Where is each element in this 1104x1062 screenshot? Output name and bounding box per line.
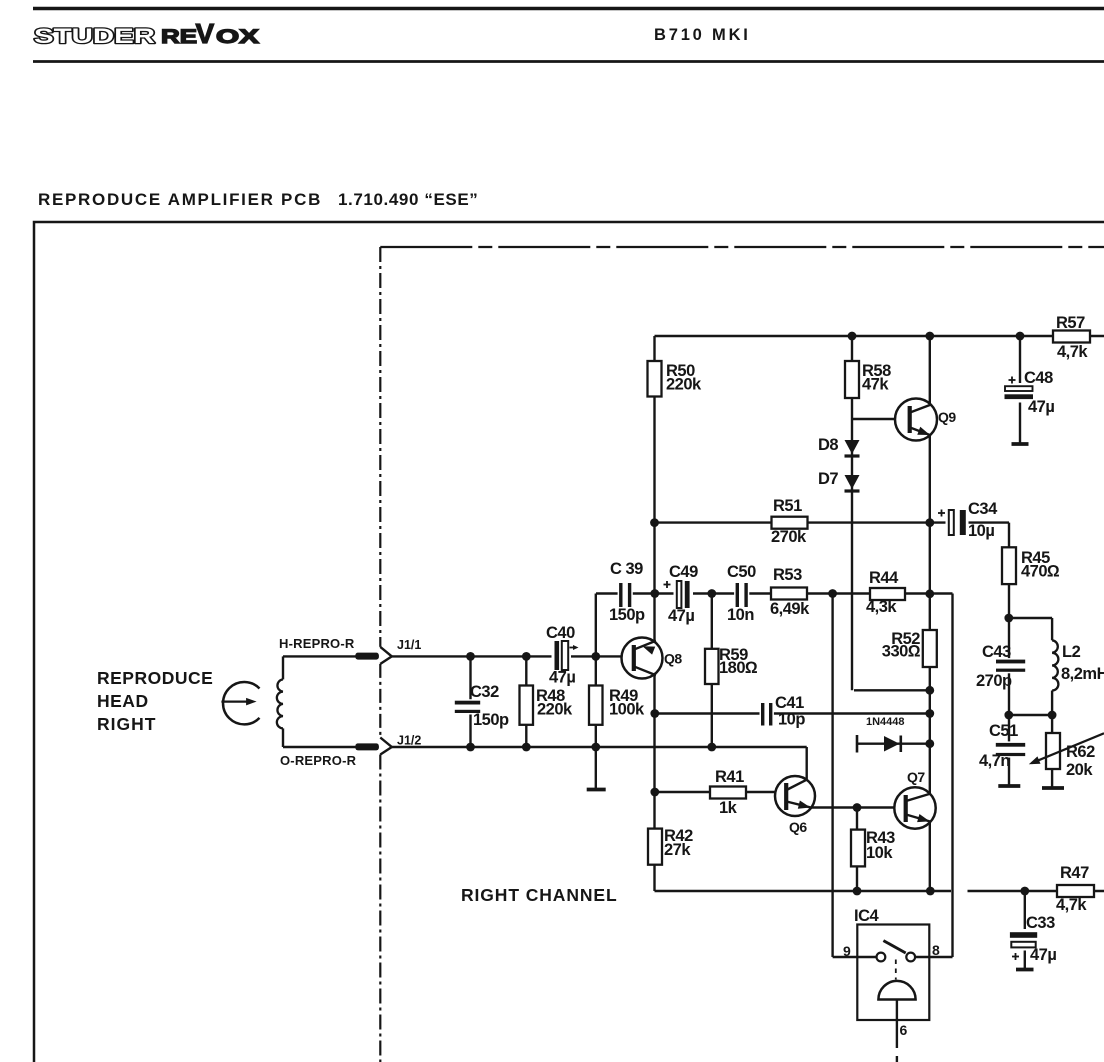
svg-text:8,2mH: 8,2mH [1061,665,1104,683]
svg-text:47k: 47k [862,376,889,394]
svg-text:4,7k: 4,7k [1056,896,1087,914]
svg-text:10k: 10k [866,844,893,862]
svg-text:D7: D7 [818,470,838,488]
svg-text:9: 9 [843,943,851,959]
svg-text:RIGHT CHANNEL: RIGHT CHANNEL [461,885,618,905]
svg-text:RIGHT: RIGHT [97,714,156,734]
svg-text:RE: RE [161,26,197,48]
svg-text:220k: 220k [537,701,573,719]
svg-text:47µ: 47µ [668,607,694,625]
svg-text:C33: C33 [1026,914,1055,932]
svg-text:REPRODUCE: REPRODUCE [97,668,213,688]
svg-text:27k: 27k [664,841,691,859]
svg-text:R53: R53 [773,566,802,584]
svg-text:Q9: Q9 [938,409,956,425]
svg-text:R51: R51 [773,497,802,515]
svg-text:150p: 150p [609,606,645,624]
svg-text:C43: C43 [982,643,1011,661]
svg-text:100k: 100k [609,701,645,719]
svg-text:Q8: Q8 [664,651,682,667]
svg-text:150p: 150p [473,711,509,729]
svg-text:C40: C40 [546,624,575,642]
svg-text:C48: C48 [1024,369,1053,387]
svg-text:20k: 20k [1066,761,1093,779]
svg-text:330Ω: 330Ω [882,643,921,661]
svg-text:220k: 220k [666,376,702,394]
svg-text:270k: 270k [771,528,807,546]
svg-text:OX: OX [216,26,259,48]
svg-text:1N4448: 1N4448 [866,716,905,728]
svg-text:B710 MKI: B710 MKI [654,26,751,44]
svg-text:J1/1: J1/1 [397,638,421,652]
svg-text:C49: C49 [669,563,698,581]
svg-text:HEAD: HEAD [97,691,149,711]
svg-text:REPRODUCE AMPLIFIER PCB: REPRODUCE AMPLIFIER PCB [38,190,322,209]
svg-text:STUDER: STUDER [34,24,156,48]
svg-text:180Ω: 180Ω [719,659,758,677]
svg-text:C50: C50 [727,563,756,581]
svg-text:270p: 270p [976,672,1012,690]
svg-text:8: 8 [932,942,940,958]
svg-text:470Ω: 470Ω [1021,563,1060,581]
svg-text:C51: C51 [989,722,1018,740]
svg-text:10µ: 10µ [968,522,994,540]
svg-text:4,3k: 4,3k [866,598,897,616]
svg-text:Q6: Q6 [789,819,807,835]
svg-text:IC4: IC4 [854,907,880,925]
svg-text:10n: 10n [727,606,754,624]
svg-text:C32: C32 [470,683,499,701]
svg-text:R62: R62 [1066,743,1095,761]
svg-text:C34: C34 [968,500,998,518]
svg-text:C 39: C 39 [610,560,643,578]
svg-text:D8: D8 [818,436,838,454]
svg-text:47µ: 47µ [1030,946,1056,964]
svg-text:6: 6 [900,1022,908,1038]
svg-text:H-REPRO-R: H-REPRO-R [279,636,355,651]
svg-text:10p: 10p [778,711,805,729]
svg-text:Q7: Q7 [907,769,925,785]
svg-text:V: V [196,18,215,49]
svg-text:4,7n: 4,7n [979,752,1010,770]
svg-text:L2: L2 [1062,643,1081,661]
svg-text:R47: R47 [1060,864,1089,882]
svg-text:J1/2: J1/2 [397,734,421,748]
svg-text:R41: R41 [715,768,744,786]
svg-text:R44: R44 [869,569,899,587]
svg-text:O-REPRO-R: O-REPRO-R [280,753,357,768]
svg-text:47µ: 47µ [549,669,575,687]
svg-text:1k: 1k [719,799,738,817]
svg-text:R57: R57 [1056,314,1085,332]
svg-text:47µ: 47µ [1028,398,1054,416]
svg-text:1.710.490 “ESE”: 1.710.490 “ESE” [338,190,478,209]
svg-text:4,7k: 4,7k [1057,343,1088,361]
svg-text:C41: C41 [775,694,804,712]
svg-text:6,49k: 6,49k [770,600,810,618]
